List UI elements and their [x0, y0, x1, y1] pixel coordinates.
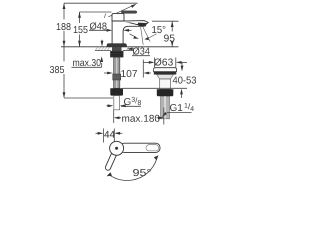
label 155: [74, 26, 88, 33]
arrow 188 top: [63, 3, 66, 9]
label 15deg: [152, 26, 165, 33]
base flange: [107, 44, 127, 47]
label Ø34: [131, 48, 134, 50]
threaded shank: [112, 47, 122, 52]
dim 107: [104, 72, 107, 74]
raised lever diagonal: [109, 5, 135, 17]
label 40-53: [173, 77, 196, 84]
dim 44 (top view): [102, 129, 104, 143]
water stream line 15 deg: [143, 27, 150, 42]
lever handle (side view): [122, 11, 137, 13]
deck hatch right: [127, 47, 134, 50]
40-53 reference line: [123, 87, 188, 89]
arrow 188 bottom at deck: [63, 41, 66, 47]
mounting nut: [110, 51, 123, 58]
dim 40-53: [181, 62, 183, 66]
lever arc small: [105, 14, 107, 19]
label 385: [50, 66, 64, 73]
top view knob circle: [110, 141, 124, 155]
drain flange: [154, 68, 177, 72]
drain tail pipe: [161, 96, 170, 119]
dim line 188/385 vertical: [63, 3, 65, 97]
label 95: [164, 35, 175, 42]
top view right lever: [120, 143, 160, 152]
arrow 385 bottom: [63, 92, 66, 98]
drain Ø63 dim: [154, 58, 156, 68]
stream angle arrow: [144, 37, 148, 40]
handle knob: [112, 13, 124, 21]
deck line left: [61, 46, 179, 48]
drain cone: [157, 75, 174, 80]
deck bottom line: [95, 49, 111, 51]
drain nut: [157, 89, 174, 96]
label Ø48 with leader: [90, 22, 107, 30]
water stream line vertical: [141, 27, 144, 45]
flow arrow inside spout: [130, 34, 137, 37]
label Ø63: [154, 58, 173, 66]
ext line top of raised lever: [64, 2, 138, 4]
dim line 155 vertical: [79, 12, 81, 47]
hose nut: [110, 88, 123, 95]
dim max.180: [113, 110, 115, 123]
label 188: [57, 23, 71, 30]
label G3/8: [124, 97, 141, 105]
ext line 155 top: [80, 11, 112, 13]
arrow 155 bottom: [78, 41, 81, 47]
arrow 155 top: [78, 12, 81, 18]
dim 95 vertical: [152, 20, 179, 22]
arrow Ø48 right: [123, 29, 129, 32]
ext line 385 bottom: [64, 97, 113, 99]
max.30 down arrow: [101, 40, 103, 41]
arrow Ø48 left: [107, 29, 113, 32]
spout top edge: [112, 21, 148, 24]
drain body: [160, 79, 171, 89]
max.30 up arrow: [100, 56, 103, 62]
label G1 1/4: [170, 103, 194, 111]
95 deg arc: [109, 157, 158, 181]
deck hatch left: [96, 47, 110, 50]
G3/8 nipple: [114, 96, 120, 110]
aerator: [138, 23, 147, 26]
faucet body: [112, 21, 143, 46]
supply tube: [114, 57, 120, 88]
G3/8 arrows: [107, 105, 109, 107]
label 95deg: [133, 169, 151, 176]
top view down lever: [105, 150, 118, 171]
107 ext line: [142, 60, 144, 78]
label max.30: [73, 59, 101, 66]
tube connector: [113, 74, 121, 80]
